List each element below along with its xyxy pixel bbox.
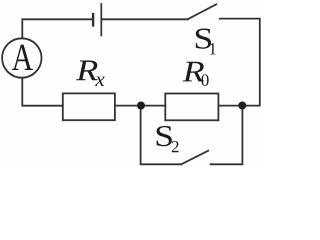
wire: node N1 down and right along bottom to S2 pivot xyxy=(141,109,182,164)
ammeter label A xyxy=(12,45,33,70)
wire: ammeter top up and right to battery negative xyxy=(22,19,91,38)
battery B1 negative plate (short) xyxy=(92,14,94,25)
wire: node N1 to R0 left xyxy=(145,105,166,107)
wire: R0 right to node N2 xyxy=(218,105,238,107)
label S1 xyxy=(196,29,211,49)
node N2 junction dot xyxy=(238,102,246,110)
switch S1 open blade xyxy=(188,4,217,19)
wire: ammeter bottom down and right to resistor Rx xyxy=(22,78,63,106)
label Rx xyxy=(76,61,98,81)
wire: battery positive to S1 pivot xyxy=(102,18,187,20)
ammeter A1 body xyxy=(2,38,41,77)
label S2 xyxy=(157,126,172,146)
resistor R0 body xyxy=(165,94,218,121)
battery B1 positive plate (long) xyxy=(100,4,102,35)
node N1 junction dot xyxy=(137,102,145,110)
switch S2 open blade xyxy=(181,151,208,165)
wire: S1 contact, top-right corner, down right side to node N2 xyxy=(220,19,260,106)
resistor Rx body xyxy=(63,93,115,120)
label R0 xyxy=(183,62,205,82)
wire: Rx right to node N1 xyxy=(115,105,138,107)
wire: S2 contact right and up to node N2 xyxy=(211,109,243,164)
